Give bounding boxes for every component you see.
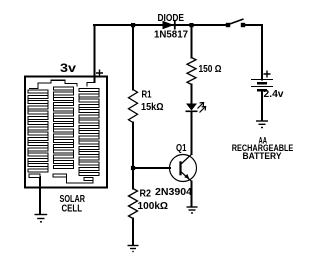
svg-text:R2: R2 xyxy=(140,189,152,200)
svg-text:DIODE: DIODE xyxy=(158,13,185,24)
svg-text:1N5817: 1N5817 xyxy=(154,30,188,41)
svg-text:3v: 3v xyxy=(60,61,76,75)
svg-text:BATTERY: BATTERY xyxy=(243,151,283,162)
svg-text:R1: R1 xyxy=(142,90,152,101)
svg-text:2N3904: 2N3904 xyxy=(155,187,192,198)
svg-text:2.4v: 2.4v xyxy=(264,89,284,100)
svg-text:150 Ω: 150 Ω xyxy=(199,64,222,75)
svg-text:Q1: Q1 xyxy=(176,143,187,154)
svg-text:CELL: CELL xyxy=(62,204,83,215)
svg-text:15kΩ: 15kΩ xyxy=(141,102,164,113)
svg-text:100kΩ: 100kΩ xyxy=(138,201,169,212)
